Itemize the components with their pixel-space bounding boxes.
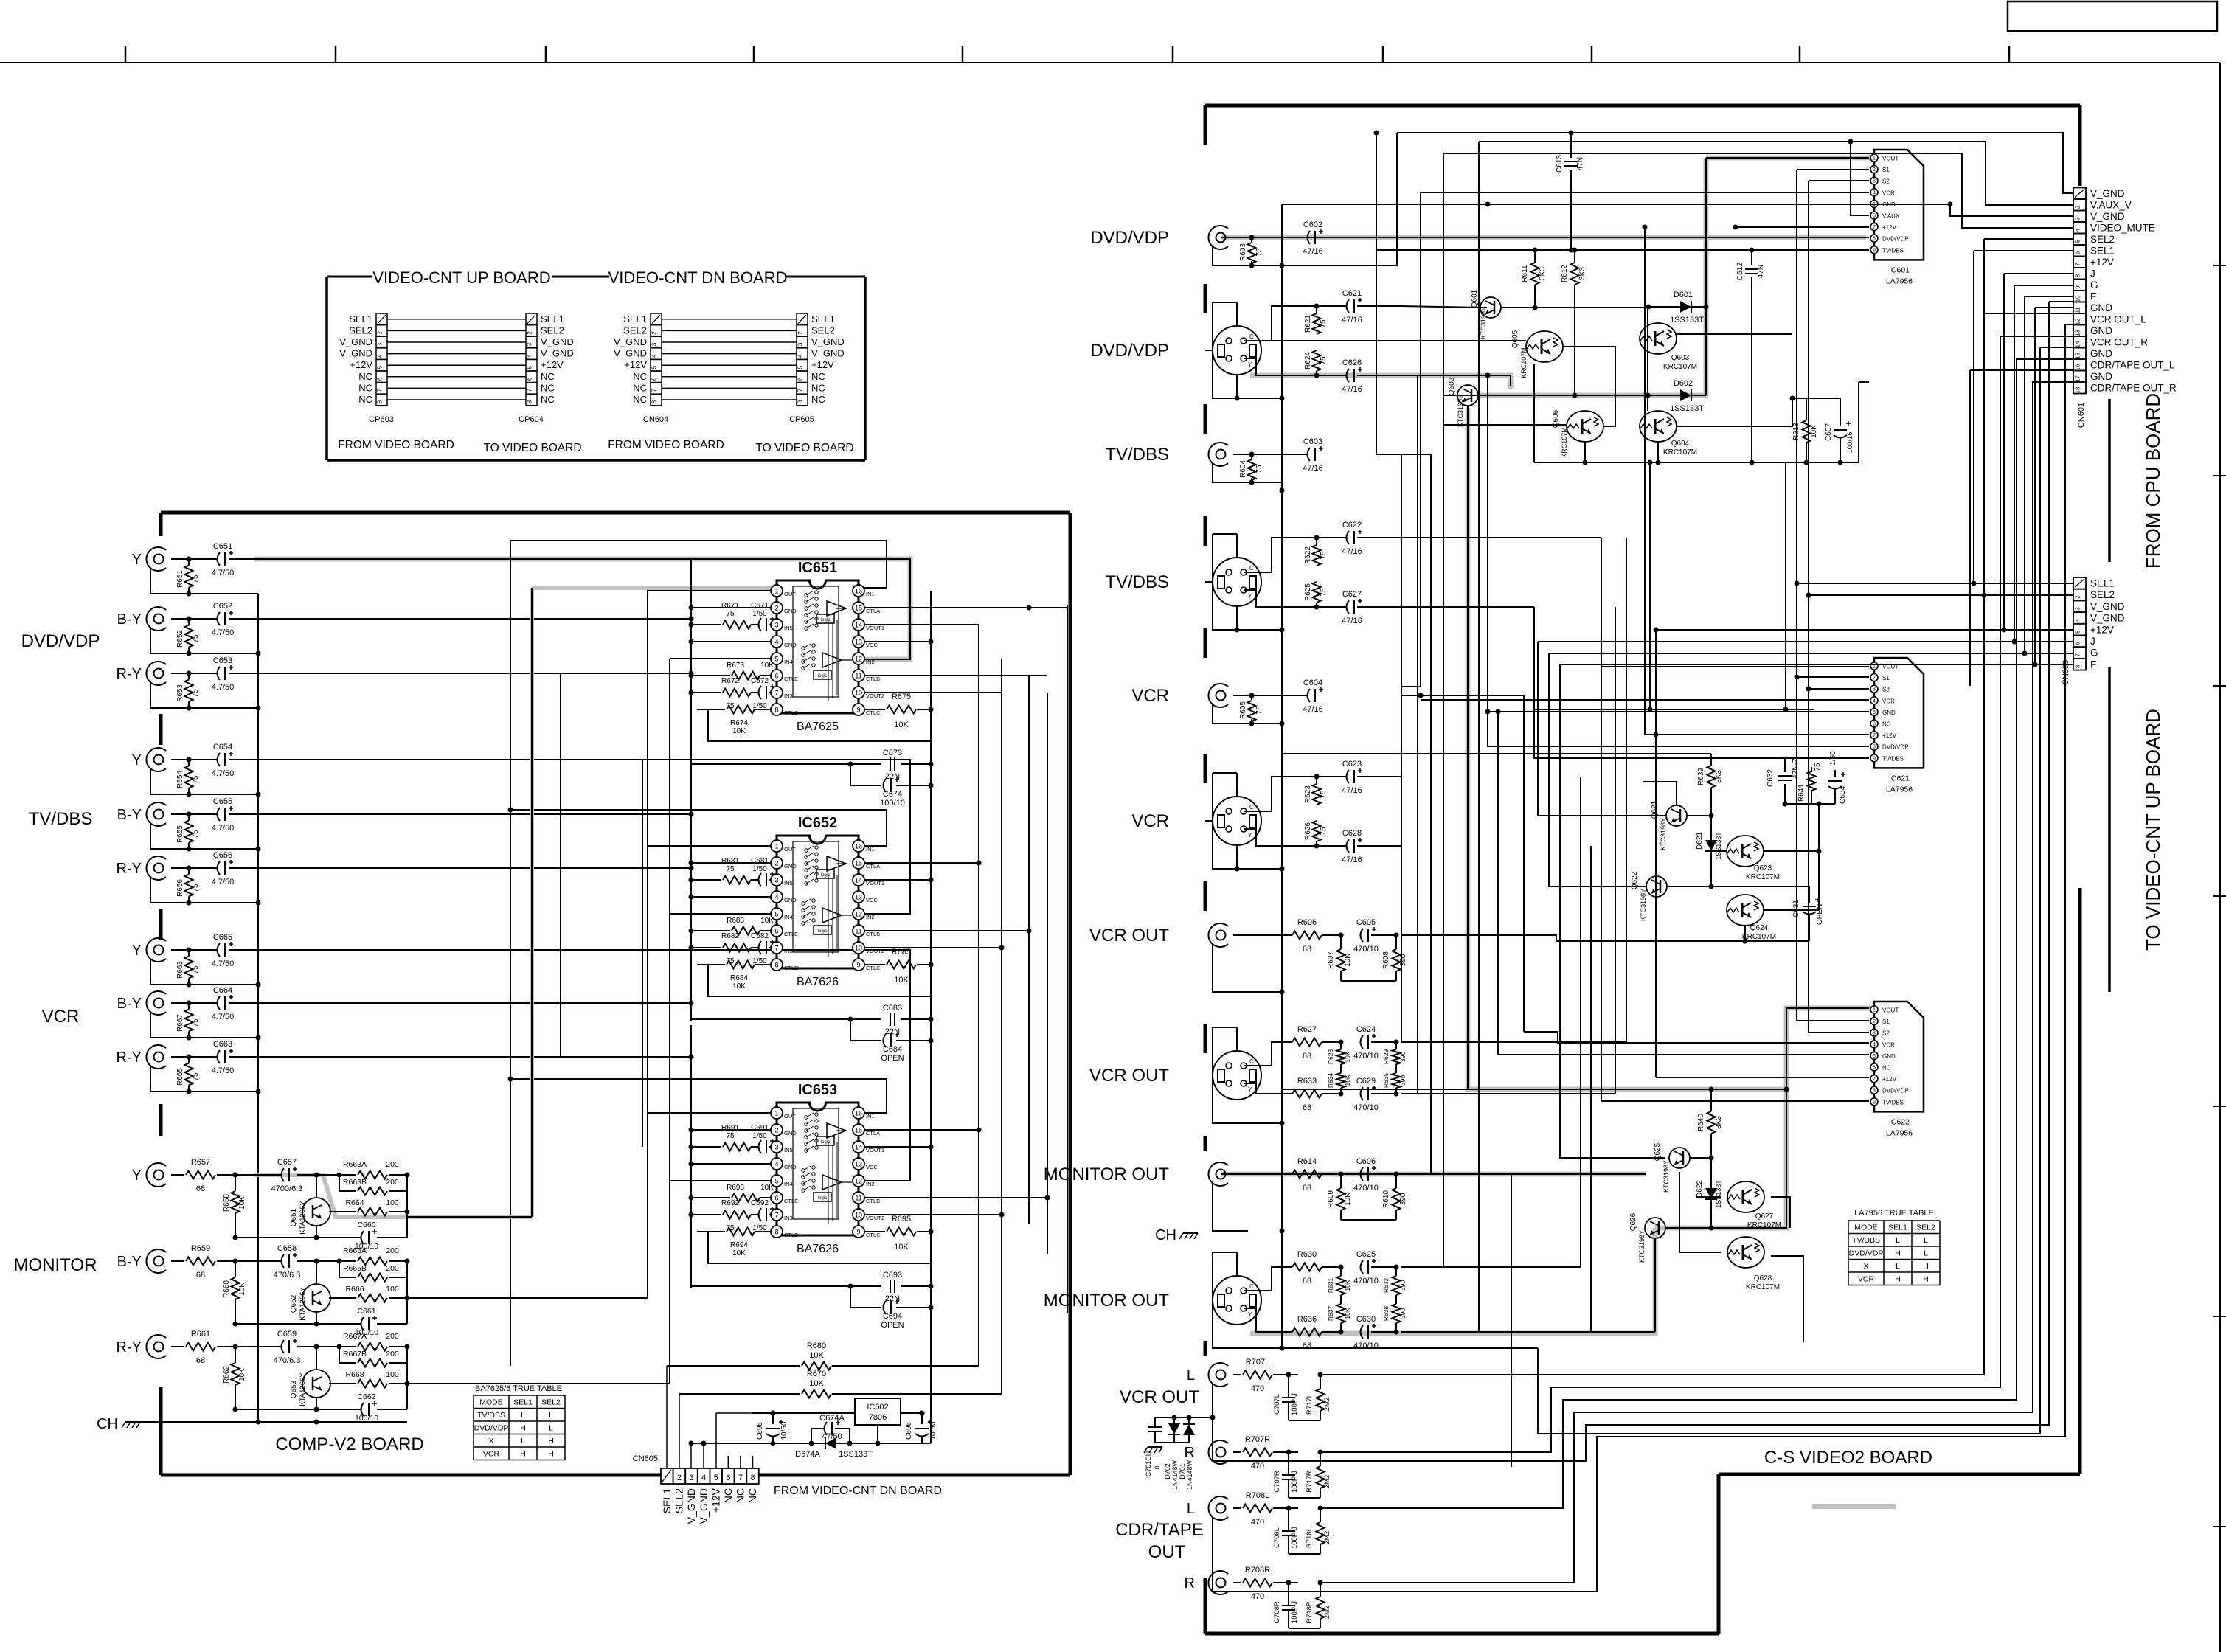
ruler tick — [1382, 46, 1384, 63]
svg-text:C613: C613 — [1556, 155, 1564, 173]
svg-text:10K: 10K — [1344, 1308, 1351, 1319]
svg-text:16: 16 — [2075, 364, 2081, 370]
svg-text:IC622: IC622 — [1889, 1117, 1910, 1126]
svg-text:KTC3198Y: KTC3198Y — [1640, 889, 1647, 921]
svg-text:SEL1: SEL1 — [2090, 246, 2115, 257]
svg-text:OPEN: OPEN — [881, 1054, 904, 1063]
capacitor C632 47N-Z — [1784, 759, 1786, 772]
svg-text:C653: C653 — [213, 656, 232, 665]
svg-text:VCR: VCR — [1131, 811, 1169, 831]
svg-text:4: 4 — [797, 354, 804, 358]
svg-text:18: 18 — [2075, 386, 2081, 393]
svg-text:75: 75 — [1320, 588, 1328, 597]
resistor R657 68 — [171, 1174, 184, 1176]
svg-text:CTLB: CTLB — [866, 1198, 880, 1204]
resistor R631 10K — [1337, 1276, 1345, 1295]
svg-text:470/10: 470/10 — [1353, 1342, 1379, 1350]
svg-text:100P-J: 100P-J — [1291, 1527, 1299, 1549]
resistor R609 10K — [1337, 1188, 1345, 1210]
capacitor C621 47/16 — [1347, 299, 1350, 313]
svg-text:D601: D601 — [1674, 291, 1693, 299]
svg-text:3: 3 — [2075, 217, 2081, 221]
svg-text:C: C — [1249, 804, 1254, 811]
transistor Q602 KTC3198Y — [1457, 385, 1478, 406]
svg-text:3: 3 — [774, 877, 778, 884]
svg-text:1/50: 1/50 — [752, 610, 767, 618]
svg-text:logic: logic — [821, 1140, 830, 1145]
transistor Q603 KRC107M — [1640, 323, 1677, 354]
svg-text:R651: R651 — [176, 570, 184, 588]
resistor R674 10K — [758, 709, 771, 710]
resistor R658 10K — [232, 1191, 240, 1213]
svg-text:C696: C696 — [905, 1422, 913, 1440]
svg-text:75: 75 — [1320, 356, 1328, 365]
wire — [387, 319, 526, 320]
wire pin1 out — [648, 845, 771, 847]
svg-text:CP604: CP604 — [519, 415, 544, 424]
svg-text:2M2: 2M2 — [1323, 1475, 1331, 1488]
wire Q606 base — [1443, 424, 1567, 426]
ruler tick — [125, 46, 127, 63]
svg-text:GND: GND — [784, 642, 797, 648]
wire — [1289, 1497, 1320, 1499]
svg-text:TV/DBS: TV/DBS — [29, 809, 93, 829]
svg-text:COMP-V2 BOARD: COMP-V2 BOARD — [275, 1434, 423, 1454]
wire — [864, 879, 931, 881]
capacitor C660 100/10 — [316, 1225, 317, 1238]
svg-text:R675: R675 — [892, 693, 911, 701]
svg-text:3: 3 — [1873, 179, 1876, 184]
svg-text:4: 4 — [774, 639, 778, 646]
capacitor C602 47/16 — [1233, 237, 1308, 238]
resistor R667A 200 — [339, 1346, 356, 1347]
wire — [235, 1409, 316, 1410]
svg-text:Q602: Q602 — [1448, 377, 1456, 395]
svg-text:C: C — [1249, 1058, 1254, 1065]
svg-text:+12V: +12V — [710, 1488, 721, 1513]
wire — [387, 353, 526, 355]
wire VIDEO_MUTE — [1478, 141, 1480, 142]
svg-text:VIDEO-CNT UP BOARD: VIDEO-CNT UP BOARD — [372, 268, 550, 287]
svg-text:47/16: 47/16 — [1303, 464, 1323, 473]
wire IC622 +12V — [1656, 1077, 1869, 1078]
svg-text:BA7626: BA7626 — [797, 976, 839, 988]
svg-text:KRC107M: KRC107M — [1663, 363, 1697, 371]
svg-text:2: 2 — [1873, 676, 1876, 681]
wire IC621 TV — [1534, 607, 1869, 758]
wire pin5 in4 — [670, 658, 771, 659]
board edge dash — [159, 1386, 163, 1475]
svg-text:VOUT: VOUT — [1882, 156, 1899, 162]
right page border — [2219, 63, 2221, 1652]
transistor Q604 KRC107M — [1640, 411, 1677, 442]
svg-text:D702: D702 — [1164, 1463, 1171, 1479]
svg-text:75: 75 — [1320, 551, 1328, 560]
svg-text:R685: R685 — [892, 948, 911, 957]
svg-text:R656: R656 — [176, 879, 184, 897]
svg-text:VOUT2: VOUT2 — [866, 1215, 884, 1221]
svg-text:7: 7 — [1873, 225, 1876, 230]
svg-text:D602: D602 — [1674, 379, 1693, 388]
svg-text:47/16: 47/16 — [1303, 247, 1323, 256]
svg-text:68: 68 — [1303, 1184, 1311, 1193]
svg-text:100P-J: 100P-J — [1291, 1471, 1299, 1493]
wire F long — [1560, 664, 2035, 665]
svg-text:6: 6 — [1873, 1066, 1876, 1071]
svg-text:H: H — [520, 1424, 526, 1433]
svg-text:S1: S1 — [1882, 675, 1890, 681]
svg-text:Y: Y — [132, 552, 142, 568]
transistor Q653 KTA1266Y — [302, 1370, 330, 1398]
svg-text:R684: R684 — [730, 974, 748, 982]
svg-text:75: 75 — [192, 575, 200, 583]
wire — [864, 692, 1002, 693]
svg-text:NC: NC — [541, 394, 555, 405]
svg-text:10K: 10K — [1344, 1280, 1351, 1291]
svg-text:10K: 10K — [894, 721, 909, 729]
bracket TO VIDEO-CNT UP BOARD — [2108, 667, 2111, 992]
svg-text:4: 4 — [774, 1161, 778, 1168]
wire R-Y2 — [229, 867, 691, 869]
capacitor C682 1/50 — [759, 941, 762, 954]
svg-text:C656: C656 — [213, 851, 232, 860]
svg-text:IN5: IN5 — [784, 625, 793, 631]
svg-text:2: 2 — [527, 331, 533, 335]
svg-text:C708L: C708L — [1273, 1527, 1281, 1548]
svg-text:C661: C661 — [357, 1307, 375, 1316]
capacitor C681 1/50 — [759, 873, 762, 886]
wire bus — [1047, 693, 1048, 1254]
resistor R623 75 — [1313, 784, 1321, 805]
board edge dash — [159, 1104, 163, 1136]
resistor R621 75 — [1313, 313, 1321, 334]
svg-text:D622: D622 — [1696, 1180, 1704, 1198]
svg-text:Y: Y — [132, 752, 142, 768]
wire TV/DBS top rail — [1376, 249, 1869, 251]
svg-text:1: 1 — [774, 1110, 778, 1117]
svg-text:C604: C604 — [1303, 678, 1322, 687]
svg-text:75: 75 — [1255, 248, 1263, 257]
wire IC622 GND — [1498, 1054, 1869, 1055]
IC IC621 LA7956 — [1874, 658, 1924, 768]
capacitor C656 4.7/50 — [171, 867, 218, 869]
svg-text:IC653: IC653 — [798, 1082, 837, 1098]
resistor R656 75 — [185, 875, 193, 897]
wire out rows to cluster — [1401, 935, 1556, 941]
svg-text:+12V: +12V — [1882, 224, 1897, 231]
svg-text:6: 6 — [726, 1474, 730, 1482]
svg-text:J: J — [2090, 636, 2095, 647]
connector CP603 — [376, 313, 387, 325]
svg-text:200: 200 — [386, 1160, 399, 1169]
wire SEL1 bus join — [1797, 583, 1974, 584]
svg-text:10K: 10K — [238, 1196, 246, 1209]
svg-text:1: 1 — [1873, 1008, 1876, 1013]
diode D602 1SS133T — [1680, 389, 1691, 401]
resistor R718L 2M2 — [1317, 1522, 1325, 1544]
wire left bus — [690, 558, 692, 766]
wire audio CDR L — [1320, 359, 2073, 1508]
svg-text:R680: R680 — [807, 1342, 826, 1350]
wire — [864, 862, 979, 864]
resistor R691 75 — [691, 1146, 721, 1148]
wire — [662, 399, 797, 400]
svg-text:GND: GND — [2090, 348, 2112, 359]
svg-text:BA7626: BA7626 — [797, 1243, 839, 1255]
svg-text:100: 100 — [386, 1370, 399, 1379]
svg-text:5: 5 — [774, 656, 778, 663]
svg-text:MONITOR OUT: MONITOR OUT — [1044, 1165, 1170, 1184]
svg-text:H: H — [1923, 1262, 1929, 1271]
resistor R635 390 — [1393, 1073, 1401, 1088]
svg-text:R673: R673 — [727, 662, 744, 670]
svg-text:7: 7 — [774, 1212, 778, 1219]
grey signal highlight left board — [254, 559, 910, 659]
wire — [722, 1468, 735, 1484]
ground bus — [257, 594, 259, 1422]
connector DVD/VDP Y input jack — [146, 547, 166, 571]
transistor Q651 KTA1266Y — [302, 1198, 330, 1226]
svg-text:7: 7 — [377, 389, 384, 392]
svg-text:470/10: 470/10 — [1353, 1277, 1379, 1285]
svg-text:CTLE: CTLE — [784, 676, 798, 682]
diodes D701 D702 1N4148W — [1162, 1426, 1163, 1436]
resistor R625 75 — [1313, 582, 1321, 603]
capacitor C691 1/50 — [759, 1140, 762, 1153]
svg-text:10: 10 — [2075, 295, 2081, 302]
svg-text:V.AUX: V.AUX — [1882, 213, 1900, 220]
wire — [1289, 1420, 1320, 1421]
wire — [387, 387, 526, 389]
svg-text:200: 200 — [386, 1264, 399, 1273]
connector DVD/VDP S-video jack — [1213, 326, 1261, 375]
wire R639 top long — [1282, 753, 1711, 754]
resistor R636 68 — [1292, 1328, 1322, 1336]
svg-text:IN3: IN3 — [784, 948, 793, 954]
wire S2 bus — [1808, 181, 1809, 1032]
svg-text:C663: C663 — [213, 1040, 232, 1049]
resistor R665 75 — [185, 1063, 193, 1086]
svg-text:8: 8 — [2075, 664, 2081, 668]
connector VCR R-Y input jack — [146, 1045, 166, 1069]
wire — [150, 568, 258, 594]
svg-text:GND: GND — [2090, 325, 2112, 336]
ruler tick — [545, 46, 547, 63]
resistor R667B 200 — [339, 1347, 356, 1363]
wire left bus — [690, 1025, 692, 1288]
svg-text:3K3: 3K3 — [1715, 770, 1723, 783]
svg-text:NC: NC — [633, 394, 647, 405]
board edge dash — [1204, 516, 1207, 546]
svg-text:47/16: 47/16 — [1342, 855, 1362, 864]
wire +12V chain — [2004, 273, 2073, 274]
grey bar bottom right — [1812, 1504, 1896, 1509]
svg-text:14: 14 — [855, 877, 862, 884]
svg-text:R663B: R663B — [343, 1178, 367, 1187]
svg-text:R633: R633 — [1297, 1077, 1317, 1086]
svg-text:R718L: R718L — [1306, 1527, 1314, 1548]
svg-text:C603: C603 — [1303, 437, 1322, 446]
svg-text:VCR OUT_R: VCR OUT_R — [2090, 337, 2148, 348]
capacitor C693 22N — [691, 1285, 881, 1287]
border tick — [2213, 1106, 2226, 1107]
wire monitor B-Y out — [407, 1297, 648, 1299]
svg-text:TV/DBS: TV/DBS — [1882, 1099, 1904, 1106]
svg-text:CDR/TAPE OUT_R: CDR/TAPE OUT_R — [2090, 383, 2177, 394]
board edge dash — [159, 909, 163, 940]
svg-text:IC652: IC652 — [798, 815, 837, 831]
svg-text:IN4: IN4 — [784, 1181, 793, 1187]
svg-text:11: 11 — [2075, 307, 2081, 313]
svg-text:47/16: 47/16 — [1342, 316, 1362, 324]
svg-text:C634: C634 — [1839, 786, 1847, 804]
wire bus — [1401, 454, 1402, 1042]
capacitor C671 1/50 — [759, 618, 762, 631]
resistor R630 68 — [1292, 1263, 1322, 1271]
svg-text:C658: C658 — [277, 1244, 297, 1253]
svg-text:R611: R611 — [1521, 265, 1529, 282]
svg-text:J: J — [2090, 268, 2095, 280]
wire bus — [1626, 538, 1627, 1042]
svg-text:NC: NC — [746, 1488, 758, 1503]
ruler tick — [335, 46, 337, 63]
capacitor C604 47/16 — [1233, 695, 1308, 696]
connector audio R707R jack — [1208, 1440, 1228, 1464]
resistor R611 3K3 — [1531, 263, 1539, 285]
svg-text:5: 5 — [2075, 630, 2081, 634]
svg-text:OUT: OUT — [784, 1113, 796, 1120]
svg-text:390: 390 — [1399, 1280, 1407, 1291]
capacitor C672 1/50 — [759, 686, 762, 699]
svg-text:V_GND: V_GND — [698, 1488, 710, 1524]
svg-text:+12V: +12V — [350, 359, 372, 370]
svg-text:KRC107M: KRC107M — [1746, 1283, 1780, 1291]
svg-text:F: F — [2090, 659, 2096, 670]
IC IC622 LA7956 — [1874, 1002, 1924, 1111]
svg-text:L: L — [1896, 1262, 1900, 1271]
svg-text:R640: R640 — [1697, 1114, 1705, 1131]
svg-text:9: 9 — [856, 1229, 860, 1236]
svg-text:R664: R664 — [345, 1198, 364, 1207]
wire bus — [978, 625, 979, 1366]
svg-text:100: 100 — [386, 1285, 399, 1294]
wire — [662, 387, 797, 389]
svg-text:CDR/TAPE OUT_L: CDR/TAPE OUT_L — [2090, 360, 2175, 371]
svg-text:TV/DBS: TV/DBS — [477, 1411, 505, 1420]
svg-text:Q601: Q601 — [1471, 289, 1479, 308]
svg-text:NC: NC — [358, 382, 372, 393]
wire Q604 out — [1677, 398, 1792, 426]
svg-text:IC621: IC621 — [1889, 774, 1910, 782]
resistor R663B 200 — [339, 1175, 356, 1191]
wire — [150, 823, 258, 849]
svg-text:R667A: R667A — [343, 1332, 367, 1341]
resistor R682 75 — [691, 947, 721, 948]
svg-text:R657: R657 — [191, 1158, 210, 1167]
svg-text:68: 68 — [1303, 1052, 1311, 1061]
svg-text:R622: R622 — [1304, 546, 1312, 564]
svg-text:1SS133T: 1SS133T — [1715, 832, 1722, 860]
svg-text:IN2: IN2 — [866, 659, 875, 665]
capacitor C707R 100P-J — [1282, 1474, 1295, 1476]
svg-text:4.7/50: 4.7/50 — [212, 683, 235, 692]
resistor R660 10K — [232, 1277, 240, 1299]
svg-text:VCR: VCR — [483, 1450, 500, 1459]
svg-text:9: 9 — [856, 707, 860, 714]
wire shell — [1205, 350, 1213, 351]
wire pin8 loop — [708, 709, 931, 741]
resistor R661 68 — [171, 1346, 184, 1347]
svg-text:LA7956: LA7956 — [1886, 277, 1913, 285]
wire Q623 base — [1711, 850, 1727, 852]
svg-text:IN1: IN1 — [866, 591, 875, 597]
svg-text:R693: R693 — [727, 1184, 744, 1192]
capacitor C622 47/16 — [1347, 531, 1350, 544]
svg-text:3: 3 — [774, 622, 778, 629]
svg-text:75: 75 — [1320, 827, 1328, 836]
svg-text:8: 8 — [377, 400, 384, 403]
ruler tick — [753, 46, 755, 63]
capacitor C662 100/10 — [316, 1397, 317, 1409]
connector audio R707L jack — [1208, 1363, 1228, 1386]
wire GND pins 15,17 — [2040, 347, 2073, 348]
svg-text:75: 75 — [1255, 706, 1263, 715]
svg-text:+12V: +12V — [2090, 257, 2114, 268]
wire — [691, 1443, 931, 1444]
svg-text:470: 470 — [1251, 1462, 1264, 1471]
svg-text:2: 2 — [1873, 167, 1876, 173]
transistor Q601 KTC3198Y — [1480, 297, 1501, 318]
svg-text:R629: R629 — [1382, 1049, 1390, 1065]
svg-text:D674A: D674A — [795, 1450, 820, 1459]
svg-text:R665: R665 — [176, 1068, 184, 1086]
svg-text:C: C — [1249, 333, 1254, 340]
wire J chain — [2014, 285, 2073, 286]
resistor R665B 200 — [339, 1261, 356, 1277]
capacitor C606 470/10 — [1361, 1167, 1364, 1181]
svg-text:3: 3 — [689, 1474, 693, 1482]
svg-text:B-Y: B-Y — [117, 611, 142, 628]
svg-text:470: 470 — [1251, 1518, 1264, 1527]
connector CN604 — [651, 313, 662, 325]
svg-text:CTLE: CTLE — [784, 931, 798, 937]
svg-text:C652: C652 — [213, 602, 232, 611]
wire — [150, 877, 258, 903]
border tick — [2213, 1316, 2226, 1317]
wire — [1282, 1347, 1538, 1349]
svg-text:R606: R606 — [1297, 918, 1317, 927]
svg-text:L: L — [521, 1411, 525, 1420]
wire Y — [1244, 358, 1297, 375]
wire J long — [1538, 641, 2014, 642]
wire ground bus — [1281, 204, 1283, 1348]
svg-text:R663A: R663A — [343, 1160, 367, 1169]
svg-text:S2: S2 — [1882, 178, 1890, 185]
capacitor C625 470/10 — [1361, 1260, 1364, 1274]
wire B-Y2 — [229, 813, 691, 815]
svg-text:Q603: Q603 — [1671, 354, 1690, 362]
wire — [1213, 246, 1282, 265]
resistor R632 390 — [1393, 1276, 1401, 1295]
wire VCR RCA long — [1401, 695, 1524, 1032]
wire V.AUX rail — [1479, 142, 2073, 205]
svg-text:47N: 47N — [1576, 157, 1584, 170]
capacitor C628 47/16 — [1347, 839, 1350, 853]
capacitor C661 100/10 — [316, 1311, 317, 1324]
svg-text:IN5: IN5 — [784, 1147, 793, 1153]
capacitor C607 100/16 — [1840, 398, 1841, 426]
svg-text:200: 200 — [386, 1246, 399, 1255]
